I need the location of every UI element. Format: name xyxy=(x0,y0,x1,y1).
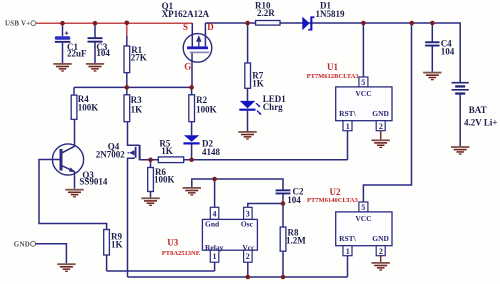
svg-text:U1: U1 xyxy=(327,62,338,72)
capacitor C4 xyxy=(425,23,455,72)
ground lower rail xyxy=(183,187,201,196)
resistor R9 xyxy=(104,230,123,272)
svg-text:S: S xyxy=(183,22,188,32)
svg-text:1.2M: 1.2M xyxy=(286,235,306,245)
ground U2 GND xyxy=(372,262,390,271)
svg-text:3: 3 xyxy=(246,209,250,218)
wire R1 top stub (red) xyxy=(126,23,128,37)
svg-text:GND: GND xyxy=(372,234,389,243)
node dot D2 bottom xyxy=(189,158,194,163)
svg-text:100K: 100K xyxy=(196,105,217,115)
resistor R4 xyxy=(71,87,98,146)
svg-text:22uF: 22uF xyxy=(67,49,87,59)
svg-text:4148: 4148 xyxy=(202,147,221,157)
svg-text:2: 2 xyxy=(246,252,250,261)
svg-text:GND: GND xyxy=(14,240,30,248)
svg-text:2N7002: 2N7002 xyxy=(96,150,125,160)
svg-text:1K: 1K xyxy=(131,105,143,115)
svg-text:2.2R: 2.2R xyxy=(257,8,275,18)
capacitor C3 xyxy=(88,23,111,63)
ground C1 xyxy=(53,63,71,72)
resistor R7 xyxy=(245,23,264,88)
svg-text:100K: 100K xyxy=(154,174,175,184)
capacitor C2 xyxy=(276,186,304,227)
node dot U3 vcc xyxy=(246,275,251,280)
svg-text:SS9014: SS9014 xyxy=(79,177,108,187)
IC U2 xyxy=(307,187,392,262)
LED LED1 xyxy=(239,88,286,131)
svg-text:U2: U2 xyxy=(330,187,341,197)
resistor R3 xyxy=(124,95,142,122)
svg-text:100K: 100K xyxy=(78,102,99,112)
transistor Q4 xyxy=(96,122,141,277)
svg-text:PT7M612BCLTA3: PT7M612BCLTA3 xyxy=(307,73,360,80)
svg-text:1: 1 xyxy=(346,247,350,256)
svg-text:R2: R2 xyxy=(196,95,207,105)
wire bottom rail xyxy=(128,276,348,278)
svg-text:USB V+: USB V+ xyxy=(5,20,31,28)
svg-text:PT7M6140CLTA3: PT7M6140CLTA3 xyxy=(307,197,359,204)
ground battery xyxy=(451,146,469,155)
svg-text:4.2V Li+: 4.2V Li+ xyxy=(464,117,497,127)
node dot R8 bottom xyxy=(281,275,286,280)
node dot C2 bottom xyxy=(281,201,286,206)
svg-text:R3: R3 xyxy=(131,95,142,105)
port GND xyxy=(14,240,36,248)
svg-text:VCC: VCC xyxy=(355,214,371,223)
ground R6 xyxy=(141,197,159,206)
svg-text:104: 104 xyxy=(287,195,301,205)
ground Q3 emitter xyxy=(65,189,83,198)
node dot R1 top xyxy=(125,21,130,26)
svg-text:GND: GND xyxy=(372,109,389,118)
resistor R1 xyxy=(124,36,147,95)
node dot R7 top xyxy=(245,21,250,26)
battery BAT xyxy=(452,82,498,146)
IC U1 xyxy=(307,62,392,139)
node dot Q1 gate xyxy=(189,85,194,90)
wire lower gnd rail xyxy=(192,179,283,190)
svg-text:2: 2 xyxy=(379,247,383,256)
svg-text:4: 4 xyxy=(213,209,217,218)
svg-text:D: D xyxy=(207,22,214,32)
resistor R5 xyxy=(158,138,183,162)
resistor R10 xyxy=(255,0,280,25)
wire U3 pin2 drop xyxy=(247,262,249,277)
node dot C4 top xyxy=(430,21,435,26)
svg-text:27K: 27K xyxy=(131,53,147,63)
svg-text:RST\: RST\ xyxy=(339,109,357,118)
node dot R6 top xyxy=(148,158,153,163)
resistor R8 xyxy=(280,227,306,277)
diode D1 xyxy=(302,0,345,30)
ground U1 GND xyxy=(372,139,390,148)
node dot C1 xyxy=(60,21,65,26)
svg-text:1K: 1K xyxy=(111,239,123,249)
node dot U2 vcc xyxy=(410,21,415,26)
svg-text:2: 2 xyxy=(379,122,383,131)
wire node B horizontal xyxy=(140,159,348,161)
port USB V+ xyxy=(5,20,36,28)
svg-text:XP162A12A: XP162A12A xyxy=(162,9,210,19)
wire U2 vcc route xyxy=(363,23,411,202)
wire Q3 base to R9 xyxy=(39,160,107,233)
svg-text:104: 104 xyxy=(441,47,455,57)
svg-text:1: 1 xyxy=(213,252,217,261)
svg-text:G: G xyxy=(184,62,191,72)
wire relay rail xyxy=(107,270,215,272)
wire node A horizontal xyxy=(74,86,192,88)
svg-text:5: 5 xyxy=(361,203,365,212)
node dot U1 vcc xyxy=(361,21,366,26)
svg-text:PT8A2513NE: PT8A2513NE xyxy=(162,250,200,257)
wire V+ rail right (navy) xyxy=(205,22,460,24)
node dot R1 bottom xyxy=(125,85,130,90)
ground C4 xyxy=(423,72,441,81)
svg-text:Gnd: Gnd xyxy=(205,220,220,229)
wire U3 pin4 drop xyxy=(214,179,216,207)
wire U1 pin5 drop xyxy=(362,23,364,77)
svg-text:5: 5 xyxy=(361,78,365,87)
IC U3 xyxy=(162,207,258,262)
wire U3 pin3 to C2 xyxy=(248,204,283,208)
transistor Q1 xyxy=(162,1,215,87)
resistor R6 xyxy=(148,160,175,198)
svg-text:Chrg: Chrg xyxy=(263,102,283,112)
wire U1 RST drop xyxy=(347,131,349,160)
diode D2 xyxy=(183,135,220,160)
capacitor C1 xyxy=(55,23,87,63)
ground GND port xyxy=(57,263,75,272)
resistor R2 xyxy=(189,87,217,135)
ground C3 xyxy=(86,63,104,72)
ground LED1 xyxy=(238,131,256,140)
svg-text:1: 1 xyxy=(346,122,350,131)
transistor Q3 xyxy=(52,144,108,189)
svg-text:VCC: VCC xyxy=(355,89,371,98)
svg-text:1K: 1K xyxy=(252,78,264,88)
node dot U3 pin4 xyxy=(212,177,217,182)
wire USB V+ rail (red) xyxy=(36,22,193,24)
wire battery drop xyxy=(459,23,462,83)
node dot C3 xyxy=(93,21,98,26)
svg-text:U3: U3 xyxy=(167,238,178,248)
svg-text:Osc: Osc xyxy=(241,220,254,229)
svg-text:1K: 1K xyxy=(161,146,173,156)
wire U3 pin1 drop xyxy=(214,262,216,271)
wire U2 RST drop xyxy=(347,256,349,277)
svg-text:BAT: BAT xyxy=(469,105,487,115)
svg-text:RST\: RST\ xyxy=(339,234,357,243)
wire GND port xyxy=(35,244,66,263)
svg-text:1N5819: 1N5819 xyxy=(316,9,345,19)
svg-text:104: 104 xyxy=(96,48,110,58)
